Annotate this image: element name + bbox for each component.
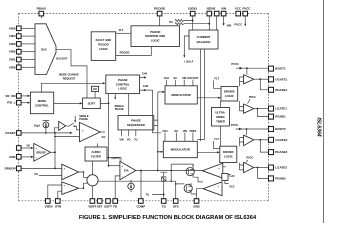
label SINGLE PHASE switch [74, 116, 76, 121]
wire phase1 [260, 79, 268, 90]
svg-text:VIN: VIN [227, 23, 232, 27]
block DRIVER LOGIC 1 [221, 86, 238, 101]
svg-text:LOGIC: LOGIC [224, 155, 233, 159]
svg-text:PGOOD: PGOOD [150, 30, 160, 34]
wire PVCC down arrow [244, 16, 246, 24]
block SOFT [83, 98, 101, 109]
wire VID1 to DAC [21, 59, 35, 61]
svg-text:CH3: CH3 [162, 130, 168, 133]
svg-text:PSI_L: PSI_L [7, 101, 16, 105]
gate driver LGATE2 [244, 162, 254, 172]
pin LGATE1 [269, 106, 274, 111]
wire buffer input [54, 128, 58, 133]
svg-text:VID0: VID0 [9, 65, 16, 69]
svg-text:UGATE1: UGATE1 [275, 77, 287, 81]
resistor R ISEN1 [175, 19, 184, 21]
svg-text:LGATE2: LGATE2 [275, 166, 287, 170]
svg-text:SET: SET [97, 205, 103, 209]
svg-text:COMP: COMP [136, 205, 145, 209]
wire diffamp upper out to summer [79, 172, 88, 177]
svg-text:MODULATOR: MODULATOR [171, 93, 191, 97]
wire lgate2 out [254, 167, 269, 169]
svg-text:PVCC: PVCC [246, 157, 253, 160]
svg-text:HO: HO [93, 88, 97, 91]
wire current source to ocset [45, 128, 47, 133]
pin VR_ON [17, 94, 22, 99]
svg-text:VO: VO [26, 144, 30, 147]
svg-text:MODULATOR: MODULATOR [171, 148, 191, 152]
svg-text:VID3: VID3 [9, 42, 16, 46]
IC boundary dashed bottom [19, 200, 269, 202]
wire VIN down arrow [223, 16, 225, 23]
wire PGOOD fault to monitor bottom [116, 47, 152, 56]
svg-text:SONIC: SONIC [216, 115, 225, 119]
svg-text:FILTER: FILTER [91, 155, 101, 159]
svg-text:VO: VO [127, 139, 131, 142]
wire driver logic1 to lgate driver [240, 101, 244, 111]
svg-text:-: - [122, 174, 123, 178]
svg-text:BALANCE: BALANCE [197, 40, 211, 44]
svg-text:10µA: 10µA [34, 123, 40, 127]
pin LGATE2 [269, 165, 274, 170]
block CURRENT BALANCE [189, 30, 218, 49]
svg-text:OC: OC [102, 135, 106, 139]
wire comp rail to modulator2 [158, 151, 161, 153]
wire droop output node [50, 151, 55, 153]
block PHASE SEQUENCER [118, 116, 154, 130]
svg-text:PHASE: PHASE [131, 119, 141, 123]
pin VSEN [46, 199, 51, 204]
pin VIN [221, 11, 226, 16]
svg-text:PVCC: PVCC [243, 6, 251, 10]
svg-text:DACOUT: DACOUT [56, 56, 68, 60]
wire diffamp lower out to summer [79, 183, 88, 188]
wire OCSET rail [21, 132, 70, 134]
wire sequencer right stubs [154, 120, 158, 125]
summer circle [87, 175, 98, 186]
gate driver UGATE2 [244, 135, 254, 146]
svg-text:VO: VO [169, 20, 173, 24]
pin UGATE1 [269, 77, 274, 82]
block ULTRASONIC TIMER [212, 108, 230, 127]
svg-text:VR_ON: VR_ON [5, 94, 15, 98]
svg-text:-: - [218, 192, 219, 195]
svg-text:VCC: VCC [235, 6, 241, 10]
svg-text:VIN: VIN [221, 6, 226, 10]
svg-text:FLT: FLT [119, 28, 124, 32]
svg-text:DFB: DFB [9, 155, 16, 159]
wire modulator2 to driver logic2 [197, 151, 217, 153]
svg-text:VCC: VCC [229, 185, 234, 188]
svg-text:RTN: RTN [55, 205, 61, 209]
wire driver logic2 to lgate2 driver [240, 163, 244, 170]
svg-text:LOGIC: LOGIC [99, 47, 108, 51]
svg-text:PHASE1: PHASE1 [275, 88, 287, 92]
pin PHASE1 [269, 87, 274, 92]
wire driver logic2 to ugate2 driver [240, 138, 244, 147]
svg-text:MODE: MODE [38, 99, 47, 103]
svg-text:ISEN2: ISEN2 [207, 6, 216, 10]
wire mode control to phase control logic [41, 83, 103, 92]
wire pcl to sequencer [128, 94, 130, 116]
svg-text:VO: VO [34, 173, 38, 176]
svg-text:-: - [64, 191, 65, 194]
svg-text:LOGIC: LOGIC [118, 86, 127, 90]
pin PVCC [243, 11, 248, 16]
svg-text:CONTROL: CONTROL [35, 104, 49, 108]
switch single-phase [66, 123, 80, 130]
transistor Q1 (circled mosfet) [186, 168, 194, 176]
svg-text:GND: GND [193, 205, 199, 209]
wire soft to ea plus [109, 165, 120, 167]
svg-text:+: + [63, 167, 65, 171]
wire DACOUT to soft column [56, 50, 87, 98]
pin OFS [173, 199, 178, 204]
wire pgnd2 [258, 168, 269, 179]
wire PSI_L to mode control [21, 102, 28, 104]
svg-text:TIMER: TIMER [216, 119, 225, 123]
svg-text:+: + [122, 164, 124, 168]
IC boundary dashed right [268, 13, 270, 200]
wire lgate1 out [254, 108, 269, 110]
svg-text:VDIFF: VDIFF [189, 130, 197, 133]
block MODULATOR 2 [163, 141, 197, 157]
svg-text:VDIFF: VDIFF [88, 205, 97, 209]
comparator B (GND sense) [203, 182, 222, 196]
svg-text:VID4: VID4 [9, 34, 16, 38]
svg-text:PVCC: PVCC [231, 62, 238, 66]
svg-text:REQUEST: REQUEST [63, 77, 76, 81]
svg-text:DAC: DAC [41, 47, 47, 51]
wire comparatorA cap node 1.2V [223, 167, 231, 184]
svg-text:DROOP: DROOP [36, 151, 46, 154]
pin VO [17, 146, 22, 151]
svg-text:UGATE2: UGATE2 [275, 138, 287, 142]
wire VID5 to DAC [21, 27, 35, 29]
svg-text:CURRENT: CURRENT [197, 35, 211, 39]
wire ugate1 out [254, 78, 269, 80]
wire OFS circuit [176, 164, 203, 199]
wire driver logic1 to ugate driver [240, 77, 244, 86]
wire FLT fault to monitor [116, 32, 131, 34]
svg-text:-: - [219, 174, 220, 178]
svg-text:BOOT2: BOOT2 [275, 127, 286, 131]
pin VID1 [17, 57, 22, 62]
svg-text:DACOUT: DACOUT [188, 77, 199, 80]
svg-text:VID2: VID2 [9, 50, 16, 54]
wire ultrasonic timer links [220, 101, 222, 146]
svg-text:PHASE2: PHASE2 [275, 150, 287, 154]
block MODULATOR 1 [165, 86, 197, 104]
wire droop pin rail [21, 167, 62, 169]
comparator OC [80, 122, 101, 141]
svg-text:VIN: VIN [182, 77, 186, 80]
pin VCC [236, 11, 241, 16]
svg-text:FB: FB [113, 205, 117, 209]
pin ISEN2b [214, 11, 219, 16]
block FAULT AND PGOOD LOGIC [91, 32, 116, 61]
wire ISEN1 net [184, 16, 193, 30]
wire VR_ON to mode control [21, 95, 28, 97]
wire VID4 to DAC [21, 35, 35, 37]
svg-text:FLT: FLT [214, 77, 219, 81]
pin PHASE2 [269, 150, 274, 155]
svg-text:VSEN: VSEN [45, 205, 53, 209]
wire fb rail to ea minus [115, 176, 120, 199]
svg-text:OFS: OFS [173, 205, 179, 209]
svg-text:AUDIO: AUDIO [91, 150, 101, 154]
svg-text:-: - [82, 136, 83, 140]
block PGOOD MONITOR AND LOGIC [131, 26, 179, 47]
svg-text:LGATE1: LGATE1 [275, 107, 287, 111]
svg-text:VIN: VIN [183, 130, 187, 133]
svg-text:LOGIC: LOGIC [225, 94, 234, 98]
wire ISEN2 net [184, 16, 209, 30]
wire audio filter top stub [96, 144, 98, 148]
pin ISEN1 [190, 11, 195, 16]
wire single phase down arrow [114, 94, 116, 98]
wire ea out and comp rail [136, 92, 203, 199]
label OC output [100, 131, 105, 133]
wire RBIAS stub [40, 16, 42, 18]
block cap box at comparator A [222, 174, 228, 181]
svg-text:MODE CHANGE: MODE CHANGE [59, 73, 79, 77]
svg-text:FIGURE 1. SIMPLIFIED FUNCTION: FIGURE 1. SIMPLIFIED FUNCTION BLOCK DIAG… [79, 215, 257, 221]
svg-text:-: - [64, 175, 65, 179]
DAC [35, 24, 56, 75]
pin VDIFF [90, 199, 95, 204]
op-amp DROOP [34, 143, 51, 161]
svg-text:+: + [35, 146, 37, 150]
block MODE CONTROL [30, 92, 53, 114]
page right border rule [323, 0, 325, 223]
pin PGND2 [269, 176, 274, 181]
svg-text:ISL6364: ISL6364 [315, 117, 321, 136]
svg-text:PVCC: PVCC [231, 123, 238, 127]
svg-text:OC: OC [174, 130, 178, 133]
svg-text:LOGIC: LOGIC [151, 39, 160, 43]
wire ugate2 out [254, 139, 269, 141]
wire VO pin to droop [21, 147, 31, 149]
block HO [92, 86, 99, 91]
wire modulator1 to driver logic1 [197, 97, 218, 99]
wire (SOFT) branch [107, 158, 121, 162]
pin VID0 [17, 65, 22, 70]
wire OC node vertical [54, 133, 56, 169]
svg-text:PGOOD: PGOOD [154, 6, 166, 10]
svg-text:BOOT1: BOOT1 [275, 67, 286, 71]
wire mode control to soft [54, 102, 80, 104]
svg-text:ISEN1: ISEN1 [188, 6, 197, 10]
svg-text:TΩ: TΩ [146, 193, 150, 196]
current source gm [128, 183, 134, 189]
svg-text:DROOP: DROOP [5, 166, 16, 170]
wire vo to diffamp upper minus [39, 175, 62, 177]
wire pgnd1 [258, 109, 269, 117]
op-amp diffamp lower (VSEN/RTN) [62, 182, 79, 195]
pin SET [97, 199, 102, 204]
resistor R ISEN2 [175, 23, 184, 25]
op-amp diffamp upper [62, 164, 79, 180]
pin PSI_L [17, 100, 22, 105]
svg-text:PHASE: PHASE [79, 118, 88, 121]
pin BOOT2 [269, 127, 274, 132]
svg-text:PVCC: PVCC [249, 96, 256, 99]
svg-text:ULTRA-: ULTRA- [215, 111, 225, 115]
pin PGOOD [157, 11, 162, 16]
pin PGND1 [269, 114, 274, 119]
pin VID3 [17, 42, 22, 47]
wire PGOOD pin to monitor block [159, 16, 161, 26]
wire ISEN2b to current balance [216, 16, 218, 30]
wire OC minus input [55, 136, 80, 138]
op-amp E/A [120, 161, 136, 180]
wire VID2 to DAC [21, 51, 35, 53]
svg-text:VIN: VIN [119, 139, 123, 142]
IC boundary dashed left [18, 13, 20, 200]
wire soft output rail [100, 94, 108, 166]
svg-text:I_BALF: I_BALF [184, 60, 194, 64]
pin BOOT1 [269, 66, 274, 71]
pin RBIAS [39, 11, 44, 16]
pin DFB [17, 155, 22, 160]
svg-text:SEQUENCER: SEQUENCER [127, 123, 145, 127]
pin ISEN2 [207, 11, 212, 16]
pin VID5 [17, 26, 22, 31]
wire comparatorB to gnd [197, 189, 204, 199]
svg-text:DRIVER: DRIVER [223, 150, 234, 154]
gate driver LGATE1 [244, 104, 254, 113]
svg-text:PGND2: PGND2 [275, 176, 286, 180]
svg-text:SOFT: SOFT [104, 205, 112, 209]
svg-text:-: - [36, 156, 37, 160]
comparator A (1.2V monitor) [202, 163, 223, 178]
gate driver UGATE1 [244, 75, 254, 84]
svg-text:VID5: VID5 [9, 26, 16, 30]
svg-text:SOFT: SOFT [88, 101, 96, 105]
wire sequencer bottom stubs [122, 130, 136, 136]
pin FB [113, 199, 118, 204]
wire summer to ofs rail [98, 180, 176, 182]
svg-text:PGND1: PGND1 [275, 115, 286, 119]
svg-text:PVCC: PVCC [234, 23, 242, 27]
svg-text:VID1: VID1 [9, 58, 16, 62]
block AUDIO FILTER [85, 147, 107, 161]
svg-text:PGOOD: PGOOD [120, 51, 130, 55]
pin TM [161, 199, 166, 204]
wire DFB to droop [21, 156, 31, 158]
svg-text:CH4: CH4 [142, 71, 148, 75]
wire VID0 to DAC [21, 66, 35, 68]
block PHASE CONTROL LOGIC [106, 75, 140, 94]
wire VID3 to DAC [21, 43, 35, 45]
op-amp OCSET buffer [59, 121, 66, 130]
svg-text:1.2V: 1.2V [229, 175, 234, 178]
svg-text:OCSET: OCSET [5, 131, 16, 135]
wire HO to soft [94, 92, 96, 99]
wire modulator2 feedback frame [171, 164, 193, 181]
IC boundary dashed top [19, 12, 269, 14]
wire audio filter to summer to vdiff [91, 161, 93, 199]
svg-text:MONITOR AND: MONITOR AND [145, 34, 165, 38]
svg-text:E/A: E/A [124, 169, 129, 173]
svg-text:OC: OC [173, 77, 177, 80]
svg-text:CH4: CH4 [164, 77, 170, 80]
pin COMP [139, 199, 144, 204]
pin RTN [56, 199, 61, 204]
wire comp rail to modulator1 [158, 91, 163, 93]
svg-text:TΩ: TΩ [134, 139, 138, 142]
wire I_BALF bus [197, 49, 204, 141]
pin UGATE2 [269, 137, 274, 142]
svg-text:FAULT AND: FAULT AND [96, 38, 112, 42]
pin GND [194, 199, 199, 204]
svg-text:CH3: CH3 [143, 84, 149, 88]
wire diffamp lower inputs from vsen rtn [48, 185, 62, 199]
pin DROOP [17, 166, 22, 171]
svg-text:DRIVER: DRIVER [224, 89, 235, 93]
wire phase2 [260, 140, 268, 152]
svg-text:RBIAS: RBIAS [37, 6, 46, 10]
wire CH4 out [140, 77, 145, 79]
pin VID4 [17, 34, 22, 39]
pin SOFT [106, 199, 111, 204]
svg-text:PGOOD: PGOOD [98, 43, 108, 47]
svg-text:PHASE: PHASE [115, 108, 124, 111]
svg-text:FLT: FLT [214, 137, 219, 141]
wire CH3 out [140, 90, 162, 133]
wire gm stub [130, 180, 132, 192]
pin VID2 [17, 49, 22, 54]
transistor Q2 (circled mosfet) [184, 184, 192, 192]
block DRIVER LOGIC 2 [220, 146, 237, 162]
pin OCSET [17, 131, 22, 136]
